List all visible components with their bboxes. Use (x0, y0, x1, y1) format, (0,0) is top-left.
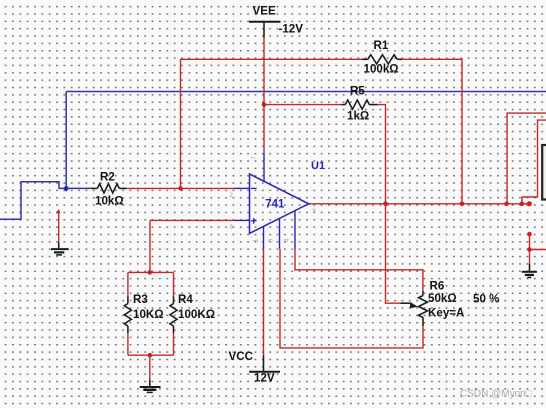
wire: red from VEE stem to R5 (264, 104, 342, 106)
wire: red feedback riser (180, 59, 182, 188)
junction: red dot output/right drop A (504, 202, 509, 207)
svg-text:R4: R4 (178, 293, 193, 306)
junction: red dot output/R1 (460, 202, 465, 207)
svg-text:R3: R3 (133, 293, 148, 306)
resistor R4 (170, 296, 177, 333)
wire: red R1 right segment and drop to output (402, 59, 462, 204)
svg-text:100kΩ: 100kΩ (364, 63, 399, 76)
wire: blue horizontal bus (66, 91, 546, 93)
wire: red stub to left ground (58, 212, 60, 243)
pin 2 stub (234, 187, 250, 189)
wire: red right branch B with jog (522, 120, 546, 204)
svg-text:R1: R1 (374, 39, 389, 52)
wire: red R3 branch bottom (127, 333, 129, 355)
wire: red R4 branch top (173, 272, 175, 296)
resistor R5 (342, 100, 378, 109)
svg-text:100KΩ: 100KΩ (178, 308, 215, 321)
svg-text:VCC: VCC (229, 350, 254, 363)
wire end marker (56, 209, 61, 214)
junction: red dot divider top (148, 270, 153, 275)
wire: red output line (311, 203, 529, 205)
wire: red right stub to edge (530, 249, 546, 251)
wire: blue input jog from left edge (0, 182, 66, 220)
svg-text:Key=A: Key=A (428, 307, 465, 320)
wire: red R3 branch top (127, 272, 129, 296)
wire: blue lead from node to R2 (66, 187, 91, 189)
wire: red right branch A to edge (507, 113, 546, 204)
wire: red pin5 run down and right to R6 top (295, 249, 423, 291)
wire: red divider bottom rail (128, 354, 174, 356)
pin 3 stub (234, 219, 250, 221)
wire: red non-inverting input from divider (150, 219, 234, 221)
ground right (522, 264, 537, 278)
svg-text:50 %: 50 % (473, 293, 499, 306)
resistor R3 (124, 296, 131, 333)
svg-text:741: 741 (265, 198, 285, 210)
junction: blue diamond at R2 input node (63, 185, 69, 191)
instrument box at right edge (542, 145, 546, 200)
wire: red R1 top run left segment (181, 58, 363, 60)
resistor R2 (91, 184, 127, 193)
ground under divider (140, 380, 161, 393)
svg-text:R5: R5 (350, 84, 365, 97)
wire: red from R2 to op-amp inverting input (127, 187, 234, 189)
power VEE supply symbol (249, 22, 281, 38)
svg-text:VEE: VEE (253, 5, 276, 18)
junction: red dot feedback node (178, 186, 183, 191)
junction: red dot output/right jog B (520, 202, 525, 207)
pin 5 stub (bottom middle) (279, 218, 281, 248)
junction: red dot R5 tap on VEE stem (262, 102, 267, 107)
power VCC supply symbol (249, 355, 280, 372)
pin 6 stub (output) (309, 203, 312, 205)
svg-text:12V: 12V (254, 371, 275, 384)
junction: red dot divider bottom (148, 353, 153, 358)
pin 1 stub (bottom left) (263, 226, 265, 248)
junction: red dot right stub top (527, 232, 532, 237)
svg-text:-12V: -12V (279, 22, 304, 35)
wire: red divider top rail (128, 271, 174, 273)
wire: red right ground stub (529, 234, 531, 264)
pin 4 stub (bottom right) (294, 211, 296, 249)
svg-text:50kΩ: 50kΩ (428, 292, 457, 305)
wire: red riser divider to pin3 (149, 220, 151, 272)
svg-text:10kΩ: 10kΩ (95, 195, 124, 208)
svg-text:10KΩ: 10KΩ (133, 308, 164, 321)
svg-text:R6: R6 (430, 279, 445, 292)
wire: red VEE stem down to op-amp top pin (263, 38, 265, 154)
svg-text:1kΩ: 1kΩ (347, 109, 369, 122)
svg-text:U1: U1 (311, 160, 325, 172)
op-amp U1 741 (250, 174, 309, 233)
junction: red dot output/R5 (383, 202, 388, 207)
resistor R1 (362, 55, 402, 64)
svg-text:R2: R2 (100, 170, 115, 183)
wire: red wiper run from output (386, 204, 401, 303)
wire: red pin4 down to VCC (263, 249, 265, 356)
wire: red R5 right segment dropping to output line (378, 105, 386, 204)
svg-text:CSDN @Myon□: CSDN @Myon□ (460, 388, 532, 399)
ground left (51, 243, 69, 255)
wire: blue riser to bus (65, 92, 67, 189)
junction: red dot output end (527, 201, 532, 206)
wire: red R4 branch bottom (173, 333, 175, 355)
potentiometer R6 (400, 291, 427, 326)
wire: red R6 bottom to pin1 riser (280, 249, 423, 348)
wire: red stem divider to ground (149, 355, 151, 380)
junction: red dot right stub tee (527, 247, 532, 252)
pin 7 stub (top) (263, 153, 265, 182)
